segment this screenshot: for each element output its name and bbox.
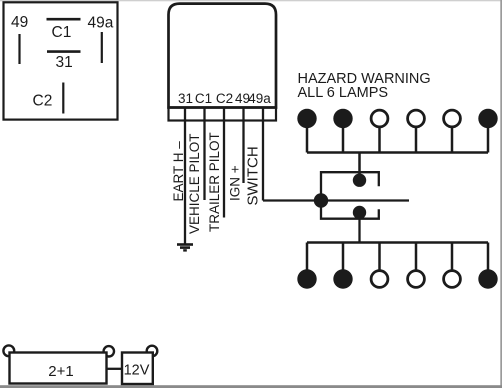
svg-text:EART H –: EART H – xyxy=(171,141,186,202)
svg-text:31: 31 xyxy=(178,91,193,106)
svg-text:TRAILER PILOT: TRAILER PILOT xyxy=(207,132,222,232)
svg-text:49: 49 xyxy=(11,14,28,31)
svg-text:49a: 49a xyxy=(88,15,114,32)
svg-text:ALL 6 LAMPS: ALL 6 LAMPS xyxy=(298,85,389,101)
svg-text:C1: C1 xyxy=(52,24,72,41)
svg-text:C1: C1 xyxy=(195,91,212,106)
svg-text:2+1: 2+1 xyxy=(48,363,73,380)
svg-text:SWITCH: SWITCH xyxy=(245,146,262,205)
svg-text:31: 31 xyxy=(56,54,73,71)
svg-text:C2: C2 xyxy=(33,93,53,110)
svg-text:VEHICLE PILOT: VEHICLE PILOT xyxy=(187,133,202,234)
svg-text:49a: 49a xyxy=(248,91,271,106)
svg-text:C2: C2 xyxy=(216,91,233,106)
svg-text:IGN +: IGN + xyxy=(228,165,243,201)
svg-text:12V: 12V xyxy=(124,363,150,379)
